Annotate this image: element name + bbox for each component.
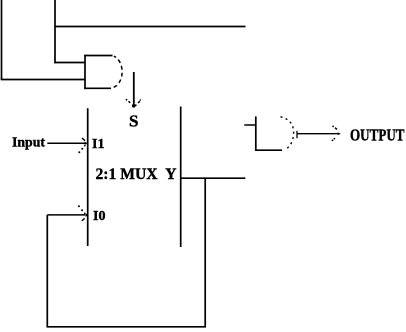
arrow: I0 arrowhead upper wing dots bbox=[78, 205, 80, 207]
arrow: OUTPUT arrowhead upper wing dots bbox=[332, 126, 334, 128]
and-gate U1 bottom edge bbox=[84, 87, 111, 89]
wire: feedback left vertical up to I0 bbox=[46, 215, 48, 327]
arrow: OUTPUT shaft bbox=[297, 133, 339, 135]
wire: left border vertical from top bbox=[1, 0, 3, 80]
arrow: Input to I1 shaft bbox=[47, 142, 85, 144]
svg-text:I1: I1 bbox=[92, 137, 104, 152]
mux right edge bbox=[180, 107, 182, 248]
arrow: I1 arrowhead upper wing stroke bbox=[82, 138, 85, 141]
and-gate U1 top edge bbox=[84, 55, 112, 57]
svg-text:S: S bbox=[129, 112, 138, 131]
wire: lower input horizontal into AND gate U1 bbox=[1, 79, 85, 81]
wire: upper input horizontal into AND gate U1 bbox=[54, 62, 85, 64]
arrow: S arrowhead right wing dots bbox=[137, 101, 140, 104]
arrow: I1 arrowhead lower wing dots bbox=[84, 145, 86, 147]
and-gate U2 output tick bbox=[296, 131, 298, 138]
arrow: gate U1 output down to S, shaft bbox=[133, 72, 135, 105]
and-gate U2 input stub bbox=[244, 124, 256, 126]
wire: feedback vertical drop from Y wire bbox=[204, 179, 206, 327]
and-gate U2 left edge bbox=[255, 116, 257, 151]
svg-text:Input: Input bbox=[12, 136, 45, 151]
svg-text:2:1 MUX: 2:1 MUX bbox=[96, 166, 159, 183]
wire: feedback bottom horizontal bbox=[47, 326, 207, 328]
arrow: I1 arrowhead tip wedge bbox=[85, 142, 88, 145]
arrow: I0 arrowhead tip wedge bbox=[86, 213, 88, 217]
arrow: OUTPUT arrowhead lower wing dots bbox=[334, 138, 336, 140]
and-gate U1 left edge bbox=[84, 55, 86, 89]
wire: Y output horizontal bbox=[181, 177, 246, 179]
arrow: I0 arrowhead lower wing stroke bbox=[82, 218, 85, 221]
svg-text:Y: Y bbox=[165, 166, 176, 183]
arrow: OUTPUT arrowhead tip wedge bbox=[338, 132, 341, 135]
and-gate U2 bottom edge bbox=[255, 149, 282, 151]
arrow: feedback into I0 shaft bbox=[47, 214, 85, 216]
svg-text:I0: I0 bbox=[93, 209, 105, 224]
and-gate U2 dotted arc bbox=[281, 117, 294, 149]
arrow: S arrowhead left wing dots bbox=[126, 99, 128, 101]
arrow: S arrowhead tip blob bbox=[132, 104, 136, 108]
svg-text:OUTPUT: OUTPUT bbox=[350, 125, 405, 144]
and-gate U1 dashed arc bbox=[112, 56, 122, 88]
wire: long horizontal feedback at top bbox=[55, 26, 246, 28]
mux left edge bbox=[87, 108, 89, 246]
wire: second vertical from top bbox=[54, 0, 56, 63]
